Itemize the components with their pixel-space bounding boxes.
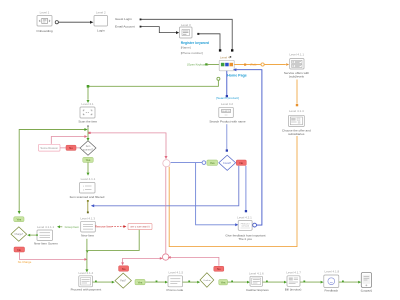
box search product xyxy=(209,102,246,123)
svg-text:Remove Item: Remove Item xyxy=(95,225,113,229)
wire yes to item-scanned box (green) xyxy=(87,162,89,172)
wire blob to merge circle (pink vertical) xyxy=(165,167,167,253)
box are-you-sure xyxy=(128,223,152,229)
svg-text:Item scanned and filtered: Item scanned and filtered xyxy=(70,195,105,199)
box cashier express xyxy=(246,271,269,292)
wire onboarding to login xyxy=(55,21,90,24)
svg-text:not found: not found xyxy=(241,225,249,228)
svg-text:Onboarding: Onboarding xyxy=(36,29,52,33)
svg-text:[Name]: [Name] xyxy=(181,46,191,50)
svg-text:xxx: xxx xyxy=(225,114,228,116)
svg-text:Confirm: Confirm xyxy=(203,279,211,282)
diamond confirm? xyxy=(200,273,214,288)
svg-text:Yes: Yes xyxy=(210,161,215,165)
merge circle node xyxy=(163,254,169,260)
wire left loop (green) xyxy=(19,130,84,212)
wire confirm-no to merge-circle (pink) xyxy=(171,257,219,265)
svg-text:SEARCH: SEARCH xyxy=(222,110,231,113)
svg-text:Scan the item: Scan the item xyxy=(78,120,97,124)
svg-text:Found?: Found? xyxy=(223,163,232,165)
box some reason xyxy=(39,144,61,151)
svg-text:Yes: Yes xyxy=(138,280,143,284)
bottom flow: box proceed payment xyxy=(71,271,102,292)
wire retry from some-reason (pink) xyxy=(51,137,84,144)
box bill invoice xyxy=(285,271,302,292)
box new item xyxy=(80,217,95,238)
svg-text:Level 4.1.1: Level 4.1.1 xyxy=(81,177,96,181)
svg-text:No Charge: No Charge xyxy=(18,260,32,264)
svg-text:Search Product with name: Search Product with name xyxy=(209,119,246,123)
box item scanned xyxy=(70,177,105,199)
chip no (paid) xyxy=(119,266,129,271)
svg-text:Feedback: Feedback xyxy=(325,289,339,293)
wire charge-no to payment line (pink) xyxy=(19,252,84,259)
svg-text:Level 4.1.7: Level 4.1.7 xyxy=(286,271,301,275)
chip yes (confirm) xyxy=(219,280,228,285)
diamond paid? xyxy=(115,273,131,288)
wire cashier to bill (green) xyxy=(263,281,285,283)
svg-text:Level 1: Level 1 xyxy=(40,11,50,15)
wire are-you-sure loop down (green) xyxy=(88,230,139,251)
svg-text:Level 4.1.5: Level 4.1.5 xyxy=(169,271,184,275)
wire register to home node xyxy=(199,34,220,49)
svg-text:Level 4.1: Level 4.1 xyxy=(81,102,94,106)
chip no (found) xyxy=(236,160,246,165)
wire choose-offer loop back to merge blob (orange) xyxy=(169,136,297,247)
diamond found? xyxy=(219,155,236,170)
svg-text:Item: Item xyxy=(86,145,91,148)
svg-text:Login: Login xyxy=(97,29,105,33)
box scan the item xyxy=(78,102,97,124)
box L1 onboarding xyxy=(36,11,52,34)
wire found-no to feedback label (blue) xyxy=(245,166,247,210)
svg-text:The it you: The it you xyxy=(238,237,252,241)
box feedback xyxy=(324,270,340,293)
svg-text:scanned?: scanned? xyxy=(83,149,94,151)
box service offers xyxy=(284,53,309,79)
wire feedback to logout (green) xyxy=(339,281,359,283)
wire diamond1 to some-reason xyxy=(60,147,80,149)
svg-text:Level 4.1.6: Level 4.1.6 xyxy=(249,271,264,275)
svg-text:Level 3: Level 3 xyxy=(181,23,191,27)
box L3 register xyxy=(180,23,209,55)
svg-text:Level 4.1.4: Level 4.1.4 xyxy=(78,271,93,275)
svg-text:Email Account: Email Account xyxy=(115,24,135,28)
wire new-item-screen to charge diamond (green) xyxy=(36,234,38,236)
wire service-offers to choose-offer (orange) xyxy=(296,80,298,104)
wire email-account to register xyxy=(141,27,177,33)
svg-text:New Item: New Item xyxy=(81,234,94,238)
svg-text:Home Page: Home Page xyxy=(227,74,247,78)
svg-text:Level 4.1.1: Level 4.1.1 xyxy=(289,53,304,57)
chip yes (paid) xyxy=(135,279,145,284)
svg-text:No: No xyxy=(69,146,73,150)
svg-text:(Logout): (Logout) xyxy=(361,289,373,293)
svg-text:Group Item: Group Item xyxy=(65,225,80,229)
svg-text:Level 4.2: Level 4.2 xyxy=(221,102,234,106)
wire not-scanned branch right (pink) xyxy=(88,132,90,134)
svg-text:subsidiaries: subsidiaries xyxy=(288,132,305,136)
wire new-item to proceed-payment (green) xyxy=(86,239,88,270)
box new item screen xyxy=(34,225,58,246)
svg-text:[Phone number]: [Phone number] xyxy=(181,51,203,55)
svg-text:Bill (invoice): Bill (invoice) xyxy=(285,288,302,292)
svg-text:Guest Login: Guest Login xyxy=(115,17,132,21)
box promo code xyxy=(167,271,184,292)
phone logout xyxy=(361,273,373,293)
wire found-yes to blob (blue) xyxy=(171,161,206,165)
svg-text:Proceed with payment: Proceed with payment xyxy=(71,288,102,292)
chip no (scan) xyxy=(66,145,76,150)
wire search to found diamond (blue light) xyxy=(226,124,228,149)
svg-text:No: No xyxy=(17,248,21,252)
wire item-scanned to new-item (olive) xyxy=(87,200,89,202)
chip yes (charge) xyxy=(14,217,24,222)
junction below scan xyxy=(87,125,89,127)
svg-text:Yes: Yes xyxy=(17,218,22,222)
node home page xyxy=(219,55,247,77)
svg-text:Level 4.1.4: Level 4.1.4 xyxy=(289,109,304,113)
svg-text:Level 4: Level 4 xyxy=(220,55,230,59)
svg-text:Promo code: Promo code xyxy=(167,288,184,292)
wire scan to diamond (green) xyxy=(87,127,89,138)
svg-text:Yes: Yes xyxy=(221,281,226,285)
wire start squares (bottom row) xyxy=(95,281,344,283)
wire yes to promo (green) xyxy=(145,281,165,283)
chip yes (scan) xyxy=(83,157,93,162)
box give feedback xyxy=(225,216,265,242)
svg-text:New Item Screen: New Item Screen xyxy=(34,242,58,246)
box choose offer xyxy=(282,109,311,136)
svg-text:No: No xyxy=(239,161,243,165)
wire promo to confirm (green) xyxy=(183,281,198,283)
wire blob-branch to give-feedback (blue) xyxy=(196,163,236,225)
svg-text:Yes: Yes xyxy=(86,158,91,162)
svg-text:Level 4.1.8: Level 4.1.8 xyxy=(325,270,340,274)
svg-text:Charge?: Charge? xyxy=(14,233,24,236)
wire yes to cashier (green) xyxy=(228,281,248,283)
diamond charge? xyxy=(11,227,27,241)
svg-text:No: No xyxy=(217,267,221,271)
wire open-keyboard to home node xyxy=(205,63,207,65)
svg-text:Register keyword: Register keyword xyxy=(181,41,209,45)
svg-text:Level 2: Level 2 xyxy=(96,11,106,15)
svg-text:Level 4.1.1.1: Level 4.1.1.1 xyxy=(37,225,55,229)
chip no (confirm) xyxy=(214,266,224,271)
wire home to scan (green) xyxy=(88,77,220,100)
wire guest-login to home node xyxy=(141,19,233,49)
wire payment to paid (green) xyxy=(93,281,113,283)
chip no (charge) xyxy=(14,247,25,252)
diamond item scanned? xyxy=(80,141,96,156)
svg-text:Some Reason: Some Reason xyxy=(40,146,58,150)
wire merge-circle to paid-no (pink) xyxy=(123,258,161,262)
svg-text:No: No xyxy=(122,267,126,271)
wire home to service offers (orange) xyxy=(234,63,286,66)
merge blob node xyxy=(163,160,170,167)
svg-text:Cashier Express: Cashier Express xyxy=(246,288,269,292)
wire bill to feedback (green) xyxy=(300,281,321,283)
svg-text:are u sure want it: are u sure want it xyxy=(130,226,149,229)
chip yes (found) xyxy=(207,160,218,165)
svg-text:Level 4.1.3: Level 4.1.3 xyxy=(80,217,95,221)
wire feedbackbox to home (blue return) xyxy=(236,70,262,227)
svg-text:[Search product]: [Search product] xyxy=(216,96,239,100)
wire found-no return (blue) xyxy=(94,166,239,206)
box L2 login xyxy=(94,11,108,33)
svg-text:(Tab): (Tab) xyxy=(250,63,256,67)
svg-text:Paid?: Paid? xyxy=(120,281,127,283)
svg-text:Level 4.2.1: Level 4.2.1 xyxy=(237,216,252,220)
svg-text:(sub)levels: (sub)levels xyxy=(289,75,304,79)
wire home to search (blue) xyxy=(226,71,228,95)
